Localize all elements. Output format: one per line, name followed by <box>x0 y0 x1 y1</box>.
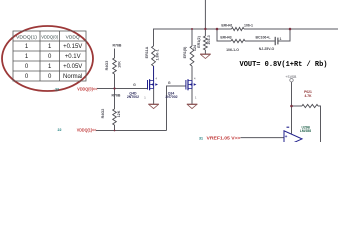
svg-text:10K: 10K <box>117 61 121 68</box>
svg-text:2N7002: 2N7002 <box>165 95 177 99</box>
svg-text:G: G <box>133 83 136 87</box>
svg-text:1: 1 <box>48 44 52 50</box>
svg-text:106-1-O: 106-1-O <box>226 48 239 52</box>
svg-text:106-1: 106-1 <box>244 23 253 27</box>
svg-text:NJ-25V-O: NJ-25V-O <box>259 47 275 51</box>
svg-text:VDDQ(1): VDDQ(1) <box>16 34 38 39</box>
svg-text:+0.05V: +0.05V <box>63 64 82 70</box>
svg-text:ER1(5): ER1(5) <box>183 46 187 58</box>
svg-text:1: 1 <box>25 44 29 50</box>
svg-text:ERH41: ERH41 <box>221 23 232 27</box>
svg-text:+: + <box>285 134 288 139</box>
svg-text:R4G3: R4G3 <box>105 61 109 71</box>
svg-text:ERH43: ERH43 <box>220 36 231 40</box>
svg-text:ER1(2): ER1(2) <box>197 35 201 47</box>
svg-text:ER11A: ER11A <box>145 46 149 58</box>
svg-text:22: 22 <box>55 87 59 91</box>
svg-text:VDDQ(0)<<: VDDQ(0)<< <box>77 86 97 91</box>
svg-text:22: 22 <box>58 128 62 132</box>
svg-text:1: 1 <box>280 37 282 41</box>
svg-text:VDDQ(0): VDDQ(0) <box>41 34 59 39</box>
svg-text:12K: 12K <box>117 110 121 117</box>
svg-text:4: 4 <box>194 77 196 81</box>
svg-text:BC106+L: BC106+L <box>255 36 271 40</box>
svg-text:+0.15V: +0.15V <box>63 44 82 50</box>
svg-text:VDDQ: VDDQ <box>66 34 81 39</box>
svg-text:+5VSB: +5VSB <box>285 76 297 80</box>
svg-text:VREF1.05 V>>: VREF1.05 V>> <box>207 136 241 141</box>
svg-text:103-3: 103-3 <box>207 35 211 44</box>
svg-text:G: G <box>168 81 171 85</box>
svg-text:LM/358: LM/358 <box>300 129 311 133</box>
svg-text:1: 1 <box>48 64 52 70</box>
svg-text:1.8K-1: 1.8K-1 <box>155 49 159 60</box>
svg-text:0: 0 <box>48 54 52 60</box>
svg-text:R4G2: R4G2 <box>101 109 105 119</box>
svg-text:R76B: R76B <box>112 94 121 98</box>
svg-text:0: 0 <box>25 74 29 80</box>
svg-text:0: 0 <box>25 64 29 70</box>
svg-text:0: 0 <box>48 74 52 80</box>
svg-text:1: 1 <box>195 96 197 100</box>
svg-text:+0.1V: +0.1V <box>65 54 81 60</box>
svg-text:4: 4 <box>156 77 158 81</box>
svg-text:VDDQ(1)<<: VDDQ(1)<< <box>77 128 97 133</box>
svg-text:4.7K: 4.7K <box>305 94 313 98</box>
svg-text:2N7002: 2N7002 <box>127 95 139 99</box>
svg-text:31: 31 <box>199 136 203 140</box>
svg-text:R76B: R76B <box>113 44 122 48</box>
svg-text:Normal: Normal <box>63 74 82 80</box>
svg-text:1: 1 <box>25 54 29 60</box>
svg-text:1: 1 <box>144 96 146 100</box>
svg-text:VOUT= 0.8V(1+Rt / Rb): VOUT= 0.8V(1+Rt / Rb) <box>240 61 328 69</box>
